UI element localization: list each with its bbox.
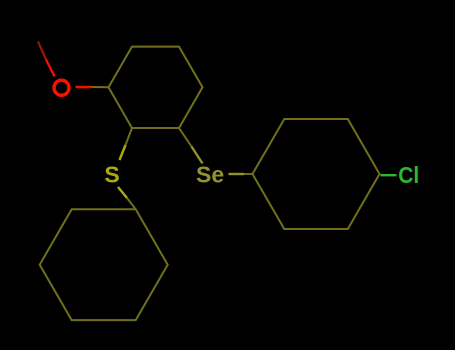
bond ring to S, dark half — [126, 128, 133, 145]
bond ring to Cl — [381, 174, 397, 176]
4-chlorophenyl benzene ring — [253, 119, 380, 229]
lower phenyl ring — [40, 209, 168, 320]
svg-text:Cl: Cl — [398, 162, 419, 188]
bond ring to Se, dark half — [179, 128, 192, 147]
bond S to phenyl, dark half — [127, 198, 136, 209]
bond S to phenyl, bright half — [118, 187, 127, 198]
atom O (methoxy oxygen) — [54, 80, 69, 95]
svg-text:S: S — [104, 162, 119, 188]
methyl bond CH3-O bright half — [46, 60, 55, 77]
central benzene ring — [109, 47, 203, 128]
bond ring to Se, bright half — [192, 147, 203, 164]
bond Se to chlorophenyl ring, bright half — [229, 173, 245, 175]
bond ring to S, bright half — [120, 145, 126, 160]
bond O to ring, dark half — [92, 86, 109, 88]
svg-text:Se: Se — [196, 162, 224, 188]
bond O to ring, red half — [76, 86, 93, 88]
bond Se to chlorophenyl ring, dark half — [244, 173, 253, 175]
methyl bond CH3-O dark half — [38, 42, 46, 60]
